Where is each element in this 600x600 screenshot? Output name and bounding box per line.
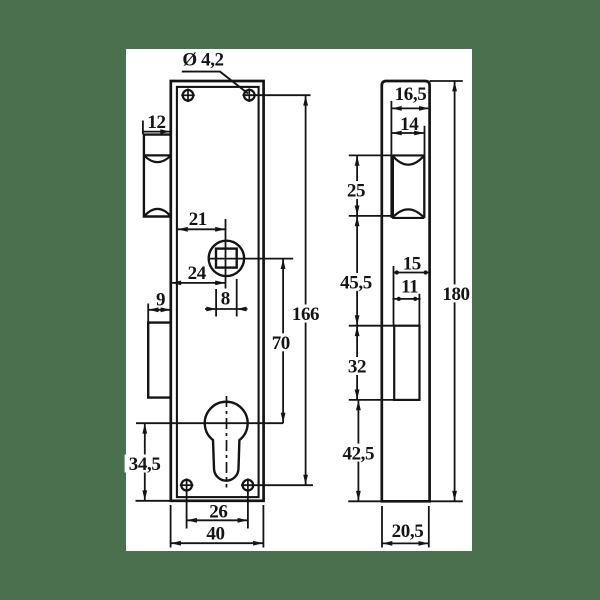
svg-text:21: 21 xyxy=(189,209,207,230)
dim 20,5: extension lines xyxy=(381,506,383,548)
svg-text:12: 12 xyxy=(147,112,165,133)
dim 11: text xyxy=(398,278,422,294)
svg-text:24: 24 xyxy=(188,263,207,284)
roller side view: top chord xyxy=(392,154,424,156)
dim 24: dimension line xyxy=(171,282,226,284)
dim 16,5: dimension line xyxy=(391,107,429,109)
bottom-left screw hole xyxy=(181,480,192,491)
ref line cutout top xyxy=(349,325,394,327)
dim 34,5: bottom reference extension xyxy=(136,500,171,502)
dim 32: text xyxy=(344,357,370,375)
svg-text:20,5: 20,5 xyxy=(392,521,424,542)
roller latch front: bottom arc xyxy=(144,209,171,217)
dim 8: dimension line, arrows outside xyxy=(205,308,248,310)
dim 40: dimension line xyxy=(171,542,264,544)
top-right screw hole xyxy=(244,90,255,101)
svg-text:Ø 4,2: Ø 4,2 xyxy=(182,50,223,71)
bottom-right screw hole xyxy=(243,480,254,491)
dim 9: dimension line xyxy=(148,309,171,311)
top-left screw hole xyxy=(183,90,194,101)
dim 180: dimension line xyxy=(454,81,456,501)
lock case front view: inner rectangle xyxy=(177,87,259,497)
svg-text:42,5: 42,5 xyxy=(342,443,374,464)
dim 166: text xyxy=(290,305,321,323)
svg-text:14: 14 xyxy=(400,114,419,135)
dim 25: dimension line xyxy=(356,155,358,216)
strike cutout side view xyxy=(394,326,419,400)
spindle hole circle xyxy=(209,241,244,276)
dim 9: extension line xyxy=(147,304,149,323)
dim 45,5: dimension line xyxy=(356,216,358,326)
dim 25: text xyxy=(344,181,369,199)
spindle vertical centerline / extension xyxy=(225,219,227,289)
dim 180: text xyxy=(442,284,470,302)
leader line from diameter label to top-right hole xyxy=(182,72,248,94)
svg-text:16,5: 16,5 xyxy=(395,84,427,105)
svg-text:15: 15 xyxy=(403,254,421,275)
euro cylinder hole xyxy=(205,402,248,481)
lock case front view: outer rectangle xyxy=(171,81,264,501)
roller latch front: top arc xyxy=(144,155,171,162)
svg-text:34,5: 34,5 xyxy=(129,454,161,475)
dim 70: text xyxy=(269,333,293,351)
roller side view: bottom chord xyxy=(392,217,424,219)
side view bottom line extensions xyxy=(348,500,382,502)
roller side view: thick left edge xyxy=(390,155,394,218)
deadbolt front: outline xyxy=(148,323,171,398)
dim 16,5: left extension line xyxy=(390,101,392,155)
roller latch front: top chord xyxy=(144,154,171,156)
dim 11: right extension line xyxy=(418,292,420,326)
dim 8: extension lines xyxy=(215,289,217,317)
ref line roller top xyxy=(349,154,392,156)
spindle square hole xyxy=(216,249,237,268)
svg-text:32: 32 xyxy=(348,357,366,378)
cylinder horizontal centerline xyxy=(136,422,283,424)
dim 34,5: dimension line xyxy=(144,423,146,501)
dim 15: dimension line with end dots xyxy=(394,272,430,274)
svg-text:40: 40 xyxy=(206,524,224,545)
svg-text:9: 9 xyxy=(156,290,165,311)
roller side view: right edge xyxy=(423,155,425,218)
dim 15: text xyxy=(400,255,424,272)
ref line cutout bottom xyxy=(349,399,394,401)
svg-text:70: 70 xyxy=(272,333,290,354)
svg-text:180: 180 xyxy=(442,284,469,305)
svg-text:45,5: 45,5 xyxy=(340,273,372,294)
dim 20,5: dimension line xyxy=(382,542,429,544)
dim 42,5: text xyxy=(338,444,378,462)
dim 14: dimension line xyxy=(391,132,424,134)
roller latch front: outline xyxy=(144,135,171,217)
ref line roller bottom xyxy=(349,215,392,217)
dim 32: dimension line xyxy=(356,326,358,400)
ref line 166 top (through top-right hole) xyxy=(242,94,310,96)
spindle horizontal centerline xyxy=(208,258,293,260)
dim 40: extension lines xyxy=(170,505,172,548)
dim 12: extension tick xyxy=(142,121,144,135)
dim 42,5: dimension line xyxy=(357,400,359,501)
dim 11: dimension line with end dots xyxy=(392,298,420,300)
svg-text:8: 8 xyxy=(221,288,230,309)
ref line 166 bottom (through bottom-right hole) xyxy=(241,484,313,486)
side view top line extension to 180 dim xyxy=(430,80,463,82)
dim 34,5: text xyxy=(125,455,165,473)
dim 70: dimension line xyxy=(282,259,284,424)
dim 15: extension line xyxy=(393,266,395,326)
svg-text:166: 166 xyxy=(292,304,319,325)
dim 26: extension lines xyxy=(186,492,188,529)
white drawing panel xyxy=(126,49,472,551)
dim 26: dimension line xyxy=(187,519,248,521)
dim 14: right extension line xyxy=(424,126,426,156)
dim 12: dimension line with arrow xyxy=(143,131,170,133)
dim 45,5: text xyxy=(336,273,376,291)
dim 166: dimension line xyxy=(305,95,307,485)
roller side view: top arc xyxy=(392,155,424,164)
dim 21: dimension line xyxy=(178,228,226,230)
cylinder vertical centerline (dash-dot) xyxy=(226,396,228,488)
svg-text:26: 26 xyxy=(209,502,227,523)
roller side view: bottom arc xyxy=(392,209,424,218)
lock case side view: outline xyxy=(382,81,430,501)
svg-text:25: 25 xyxy=(347,181,365,202)
svg-text:11: 11 xyxy=(401,276,418,297)
